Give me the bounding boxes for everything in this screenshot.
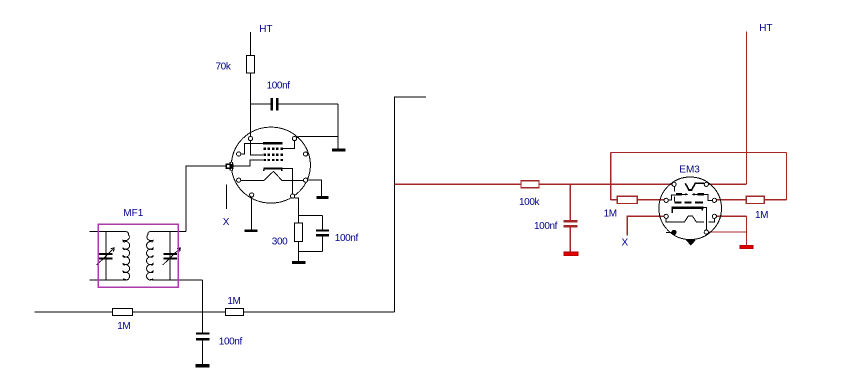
svg-text:100nf: 100nf — [534, 221, 558, 232]
svg-text:EM3: EM3 — [679, 165, 700, 176]
svg-text:300: 300 — [272, 236, 288, 247]
svg-text:1M: 1M — [117, 321, 130, 332]
svg-text:HT: HT — [259, 24, 272, 35]
svg-text:X: X — [223, 217, 230, 228]
svg-text:100k: 100k — [519, 197, 540, 208]
svg-text:1M: 1M — [755, 210, 768, 221]
svg-text:MF1: MF1 — [123, 208, 143, 219]
svg-text:1M: 1M — [227, 296, 240, 307]
svg-text:100nf: 100nf — [267, 81, 291, 92]
svg-text:70k: 70k — [216, 61, 232, 72]
svg-text:1M: 1M — [604, 209, 617, 220]
svg-text:100nf: 100nf — [335, 233, 359, 244]
svg-text:HT: HT — [759, 23, 772, 34]
svg-text:100nf: 100nf — [219, 336, 243, 347]
svg-text:X: X — [622, 238, 629, 249]
